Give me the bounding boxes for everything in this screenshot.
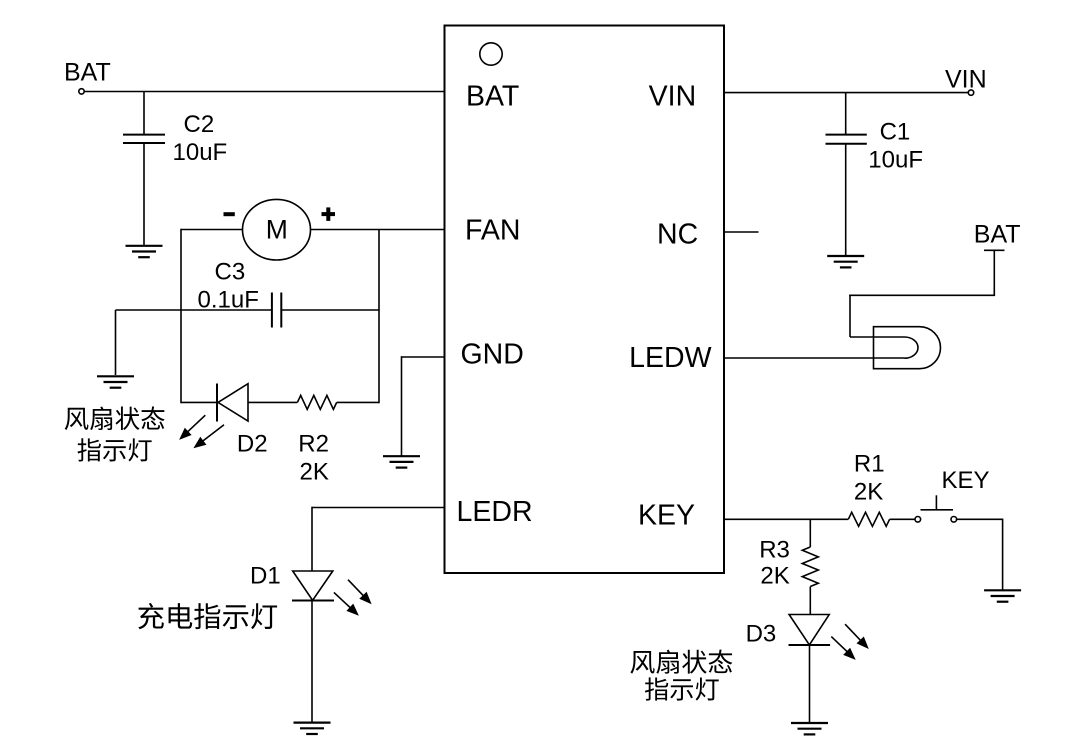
C1 value label — [868, 119, 923, 174]
wire: R2 to right loop — [337, 401, 379, 403]
BAT terminal tick — [984, 249, 1005, 251]
svg-text:C1: C1 — [880, 119, 911, 146]
label: fan status line2 (right) — [645, 677, 719, 700]
wire: loop to D2 cathode — [181, 401, 217, 403]
wire: motor + to FAN pin — [311, 229, 445, 231]
wire: KEY pin to R1 — [724, 518, 848, 520]
ground (D3) — [791, 723, 828, 734]
IC U1 body — [445, 26, 725, 574]
C2 value label — [173, 111, 228, 166]
svg-text:GND: GND — [461, 339, 524, 371]
ground (C1) — [827, 256, 864, 267]
ground (D1) — [294, 723, 331, 734]
wire: BAT to lamp top lead — [849, 250, 995, 337]
svg-text:C3: C3 — [215, 259, 246, 286]
wire: BAT terminal to IC — [79, 89, 445, 94]
wire: left loop vertical — [180, 229, 182, 404]
svg-text:NC: NC — [657, 219, 698, 251]
D2 light arrow 1 — [179, 415, 205, 440]
svg-text:LEDR: LEDR — [457, 496, 533, 528]
svg-text:BAT: BAT — [64, 59, 111, 87]
LED D3 — [789, 615, 831, 646]
C3 value label — [198, 259, 259, 314]
IC pin-1 marker circle — [480, 43, 502, 65]
LED D2 — [217, 384, 248, 422]
capacitor C1 — [826, 93, 867, 255]
switch KEY (pushbutton) — [915, 495, 957, 522]
lamp LEDW envelope — [874, 327, 941, 369]
R1 value label — [854, 451, 885, 506]
motor M1 — [243, 199, 311, 260]
svg-text:0.1uF: 0.1uF — [198, 287, 259, 314]
wire: LEDW pin to lamp — [724, 357, 905, 359]
svg-text:BAT: BAT — [974, 221, 1021, 249]
ground (GND pin) — [383, 456, 420, 467]
svg-text:2K: 2K — [760, 562, 789, 589]
wire: motor - to left loop — [181, 229, 243, 231]
svg-text:2K: 2K — [854, 478, 883, 505]
svg-text:VIN: VIN — [649, 81, 697, 113]
label: fan status line1 (left) — [65, 406, 165, 430]
label: fan status line1 (right) — [630, 650, 732, 674]
D2 light arrow 2 — [193, 425, 224, 449]
wire: D1 cathode to ground — [311, 601, 313, 723]
D1 light arrow 1 — [348, 580, 372, 605]
svg-text:LEDW: LEDW — [629, 342, 711, 374]
svg-text:R2: R2 — [298, 431, 329, 458]
wire: KEY junction to R3 — [809, 519, 811, 547]
resistor R3 — [802, 547, 818, 587]
svg-text:M: M — [266, 215, 288, 245]
svg-text:10uF: 10uF — [173, 139, 228, 166]
wire: right loop vertical (FAN to R2) — [378, 230, 380, 404]
svg-text:FAN: FAN — [465, 215, 520, 247]
resistor R1 — [848, 512, 889, 526]
svg-text:D1: D1 — [250, 563, 281, 590]
wire: GND pin to ground — [402, 356, 445, 455]
svg-text:D3: D3 — [746, 621, 777, 648]
R2 value label — [298, 431, 329, 486]
capacitor C3 — [116, 293, 380, 328]
label: charging indicator — [138, 603, 277, 629]
wire: R1 to switch — [890, 518, 915, 520]
svg-text:KEY: KEY — [942, 467, 990, 494]
motor minus polarity mark — [224, 212, 235, 216]
D3 light arrow 2 — [845, 624, 869, 649]
lamp filament arc — [905, 337, 919, 358]
wire: R3 to D3 — [809, 587, 811, 615]
capacitor C2 — [123, 92, 165, 246]
R3 value label — [759, 537, 790, 590]
svg-text:BAT: BAT — [466, 81, 519, 113]
wire: LEDR pin to D1 — [312, 507, 445, 571]
ground (C3) — [97, 376, 134, 387]
LED D1 — [292, 571, 334, 601]
pin NC stub wire — [724, 231, 759, 233]
wire: VIN pin to terminal — [724, 90, 974, 95]
svg-text:KEY: KEY — [638, 499, 695, 531]
wire: D2 anode to R2 — [248, 401, 297, 403]
svg-text:R1: R1 — [854, 451, 885, 478]
resistor R2 — [297, 395, 336, 409]
ground (KEY switch) — [984, 590, 1021, 601]
label: fan status line2 (left) — [78, 438, 152, 461]
wire: C3 to ground — [115, 310, 117, 375]
ground (C2) — [126, 246, 163, 257]
svg-text:2K: 2K — [300, 459, 329, 486]
wire: D3 cathode to ground — [809, 645, 811, 722]
svg-text:10uF: 10uF — [868, 147, 923, 174]
motor plus polarity mark — [322, 207, 336, 221]
svg-text:C2: C2 — [184, 111, 215, 138]
svg-text:D2: D2 — [237, 431, 268, 458]
D1 light arrow 2 — [334, 592, 359, 615]
D3 light arrow 1 — [831, 637, 855, 660]
svg-text:VIN: VIN — [945, 66, 987, 94]
wire: switch to ground — [957, 519, 1003, 590]
svg-text:R3: R3 — [759, 537, 790, 564]
